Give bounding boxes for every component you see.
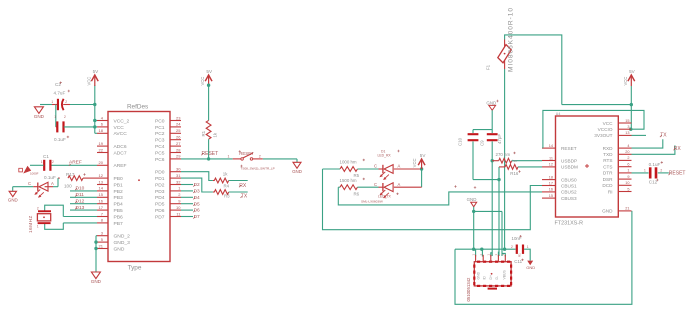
svg-text:1k: 1k <box>213 132 218 137</box>
svg-text:USBDP: USBDP <box>561 158 577 163</box>
svg-text:18: 18 <box>549 175 553 179</box>
svg-text:GND_2: GND_2 <box>114 234 131 240</box>
svg-text:R6: R6 <box>354 191 360 196</box>
svg-text:GND: GND <box>526 265 535 270</box>
svg-text:1: 1 <box>37 224 39 228</box>
svg-text:PD6: PD6 <box>155 208 165 214</box>
svg-text:ID: ID <box>483 276 487 280</box>
svg-text:PC0: PC0 <box>155 118 165 124</box>
svg-text:1: 1 <box>51 100 53 104</box>
svg-text:PC4: PC4 <box>155 144 165 150</box>
svg-text:PC1: PC1 <box>155 125 165 131</box>
svg-text:C: C <box>374 182 377 187</box>
svg-text:CBUS0: CBUS0 <box>561 177 577 182</box>
svg-text:RESET: RESET <box>669 171 686 177</box>
svg-text:16MHZ: 16MHZ <box>28 215 33 233</box>
svg-text:2: 2 <box>259 154 261 158</box>
svg-text:20: 20 <box>625 150 629 154</box>
svg-text:CBUS2: CBUS2 <box>561 190 577 195</box>
svg-text:17: 17 <box>549 181 553 185</box>
svg-text:GND: GND <box>467 197 477 202</box>
svg-text:11: 11 <box>549 156 553 160</box>
svg-text:26: 26 <box>176 135 181 140</box>
svg-text:1: 1 <box>627 169 629 173</box>
svg-text:18: 18 <box>99 128 104 133</box>
svg-text:2: 2 <box>64 115 66 119</box>
svg-text:2: 2 <box>37 206 39 210</box>
svg-text:3V3OUT: 3V3OUT <box>594 133 612 138</box>
svg-text:9: 9 <box>627 175 629 179</box>
svg-text:30: 30 <box>176 167 181 172</box>
svg-text:TXD: TXD <box>603 152 613 157</box>
svg-text:R17: R17 <box>66 172 75 177</box>
svg-text:23: 23 <box>176 115 181 120</box>
svg-text:DTR: DTR <box>603 171 613 176</box>
svg-text:15: 15 <box>549 194 553 198</box>
svg-text:PD7: PD7 <box>155 214 165 220</box>
svg-text:PB4: PB4 <box>114 202 124 208</box>
svg-text:19: 19 <box>99 141 104 146</box>
svg-text:PC6: PC6 <box>155 157 165 163</box>
svg-text:RXD: RXD <box>603 146 614 151</box>
svg-text:4.7uF: 4.7uF <box>54 91 66 96</box>
svg-text:1: 1 <box>41 160 43 164</box>
svg-text:10nF: 10nF <box>512 236 522 241</box>
svg-text:VCCIO: VCCIO <box>598 127 613 132</box>
svg-text:GND: GND <box>602 209 613 214</box>
svg-text:21: 21 <box>99 243 104 248</box>
svg-text:5V: 5V <box>629 69 636 74</box>
svg-text:D+: D+ <box>489 275 493 279</box>
svg-text:FT231XS-R: FT231XS-R <box>555 221 584 227</box>
svg-text:21: 21 <box>625 207 629 211</box>
svg-text:AREF: AREF <box>114 163 127 169</box>
svg-text:RESET: RESET <box>202 151 219 157</box>
svg-text:RESET: RESET <box>239 151 254 156</box>
svg-text:PC3: PC3 <box>155 138 165 144</box>
svg-text:12: 12 <box>549 163 553 167</box>
svg-text:15: 15 <box>99 192 104 197</box>
svg-text:USBDM: USBDM <box>561 165 578 170</box>
svg-text:14: 14 <box>99 186 104 191</box>
svg-text:VCC_2: VCC_2 <box>114 118 130 124</box>
svg-text:4: 4 <box>627 144 629 148</box>
svg-text:GND: GND <box>34 114 45 119</box>
svg-text:RefDes: RefDes <box>127 103 148 110</box>
svg-text:2: 2 <box>660 169 662 173</box>
svg-text:47pF: 47pF <box>497 134 502 144</box>
svg-text:GND: GND <box>477 271 481 279</box>
svg-text:10: 10 <box>625 181 629 185</box>
svg-text:16: 16 <box>99 199 104 204</box>
svg-text:12: 12 <box>99 173 104 178</box>
svg-text:13: 13 <box>625 131 629 135</box>
svg-text:2: 2 <box>52 160 54 164</box>
svg-text:5V: 5V <box>93 69 100 74</box>
svg-text:17: 17 <box>99 205 104 210</box>
svg-text:PB2: PB2 <box>114 189 124 195</box>
svg-text:MI0805K400R-10: MI0805K400R-10 <box>508 7 515 72</box>
svg-text:28: 28 <box>176 147 181 152</box>
svg-text:RESET: RESET <box>561 146 577 151</box>
svg-text:PD2: PD2 <box>155 182 165 188</box>
svg-text:VCC: VCC <box>114 125 125 131</box>
svg-text:14: 14 <box>549 144 553 148</box>
svg-text:PD3: PD3 <box>155 189 165 195</box>
svg-text:GND_3: GND_3 <box>114 240 131 246</box>
svg-text:5V: 5V <box>206 69 213 74</box>
svg-text:0.1uF: 0.1uF <box>649 162 661 167</box>
svg-text:GND: GND <box>91 279 102 284</box>
svg-text:GND: GND <box>292 169 302 174</box>
svg-text:PC5: PC5 <box>155 150 165 156</box>
svg-text:Type: Type <box>128 265 142 272</box>
svg-text:GND: GND <box>486 100 496 105</box>
svg-text:VCC: VCC <box>86 77 91 86</box>
svg-text:CBUS1: CBUS1 <box>561 183 577 188</box>
svg-text:20: 20 <box>99 160 104 165</box>
svg-text:2: 2 <box>65 100 67 104</box>
svg-text:VCC: VCC <box>603 121 614 126</box>
svg-text:GND: GND <box>8 197 18 202</box>
svg-text:PB7: PB7 <box>114 221 124 227</box>
svg-text:C: C <box>374 164 377 169</box>
svg-text:6: 6 <box>627 163 629 167</box>
svg-text:22: 22 <box>99 147 104 152</box>
svg-text:15: 15 <box>625 119 629 123</box>
svg-text:GND: GND <box>114 246 125 252</box>
svg-text:1000F: 1000F <box>30 172 39 176</box>
svg-text:CTS: CTS <box>603 165 612 170</box>
svg-text:hm: hm <box>513 159 518 163</box>
svg-text:31: 31 <box>176 173 181 178</box>
svg-text:PD1: PD1 <box>155 176 165 182</box>
svg-text:1: 1 <box>644 169 646 173</box>
svg-text:27: 27 <box>176 141 181 146</box>
svg-text:VBUS: VBUS <box>503 270 507 280</box>
svg-text:2: 2 <box>511 245 513 249</box>
svg-text:PD0: PD0 <box>155 170 165 176</box>
svg-text:AREF: AREF <box>69 160 82 166</box>
svg-text:A: A <box>398 164 401 169</box>
svg-text:R16: R16 <box>510 171 519 176</box>
svg-text:DCD: DCD <box>602 183 613 188</box>
svg-text:2: 2 <box>627 156 629 160</box>
svg-text:C1: C1 <box>43 154 49 159</box>
svg-text:D-: D- <box>495 276 499 280</box>
svg-text:32: 32 <box>176 179 181 184</box>
svg-text:PB6: PB6 <box>114 214 124 220</box>
svg-text:5V: 5V <box>420 153 427 158</box>
svg-text:CBUS3: CBUS3 <box>561 196 577 201</box>
svg-text:LED_TX: LED_TX <box>378 194 392 198</box>
svg-text:100: 100 <box>64 184 72 189</box>
svg-text:C10: C10 <box>457 137 462 146</box>
svg-text:C: C <box>28 181 31 186</box>
svg-text:1k: 1k <box>223 171 228 176</box>
svg-text:PB1: PB1 <box>114 182 124 188</box>
svg-text:PB3: PB3 <box>114 195 124 201</box>
svg-text:TS08_SW(3)_SWTR_LP: TS08_SW(3)_SWTR_LP <box>241 166 275 170</box>
svg-text:0510051342: 0510051342 <box>466 277 471 302</box>
svg-text:R4: R4 <box>224 184 230 189</box>
svg-text:PB5: PB5 <box>114 208 124 214</box>
svg-text:3: 3 <box>627 125 629 129</box>
svg-text:1: 1 <box>228 154 230 158</box>
svg-text:DSR: DSR <box>603 177 614 182</box>
svg-text:PD5: PD5 <box>155 202 165 208</box>
svg-text:1: 1 <box>54 115 56 119</box>
svg-text:ADC7: ADC7 <box>114 150 127 156</box>
svg-text:29: 29 <box>176 154 181 159</box>
svg-text:A: A <box>398 182 401 187</box>
svg-text:VCC: VCC <box>623 77 628 86</box>
svg-text:VCC: VCC <box>200 77 205 86</box>
svg-text:LED_RX: LED_RX <box>378 154 392 158</box>
svg-text:PD4: PD4 <box>155 195 165 201</box>
svg-text:10: 10 <box>176 205 181 210</box>
svg-text:R1: R1 <box>201 130 206 136</box>
svg-text:1500 hm: 1500 hm <box>340 178 357 183</box>
svg-text:0.1uF: 0.1uF <box>54 137 66 142</box>
svg-text:A: A <box>51 181 54 186</box>
svg-text:R1: R1 <box>518 253 522 257</box>
svg-text:PB0: PB0 <box>114 176 124 182</box>
svg-text:16: 16 <box>549 188 553 192</box>
svg-text:25: 25 <box>176 128 181 133</box>
svg-text:1000 hm: 1000 hm <box>340 159 357 164</box>
svg-text:RI: RI <box>608 189 613 194</box>
svg-text:13: 13 <box>99 179 104 184</box>
svg-text:VCC: VCC <box>412 158 417 167</box>
svg-text:5: 5 <box>627 187 629 191</box>
svg-text:24: 24 <box>176 122 181 127</box>
svg-text:RTS: RTS <box>603 158 612 163</box>
svg-text:AVCC: AVCC <box>114 131 128 137</box>
svg-text:R3: R3 <box>224 194 230 199</box>
svg-text:PC2: PC2 <box>155 131 165 137</box>
svg-text:F1: F1 <box>485 64 490 70</box>
svg-text:0.1uF: 0.1uF <box>44 175 56 180</box>
svg-text:SML-LX0603IW: SML-LX0603IW <box>361 199 383 203</box>
svg-text:U4: U4 <box>556 112 561 116</box>
svg-text:ADC6: ADC6 <box>114 144 127 150</box>
svg-text:1: 1 <box>527 245 529 249</box>
svg-text:C9: C9 <box>479 140 484 146</box>
svg-text:270 hm: 270 hm <box>496 152 511 157</box>
